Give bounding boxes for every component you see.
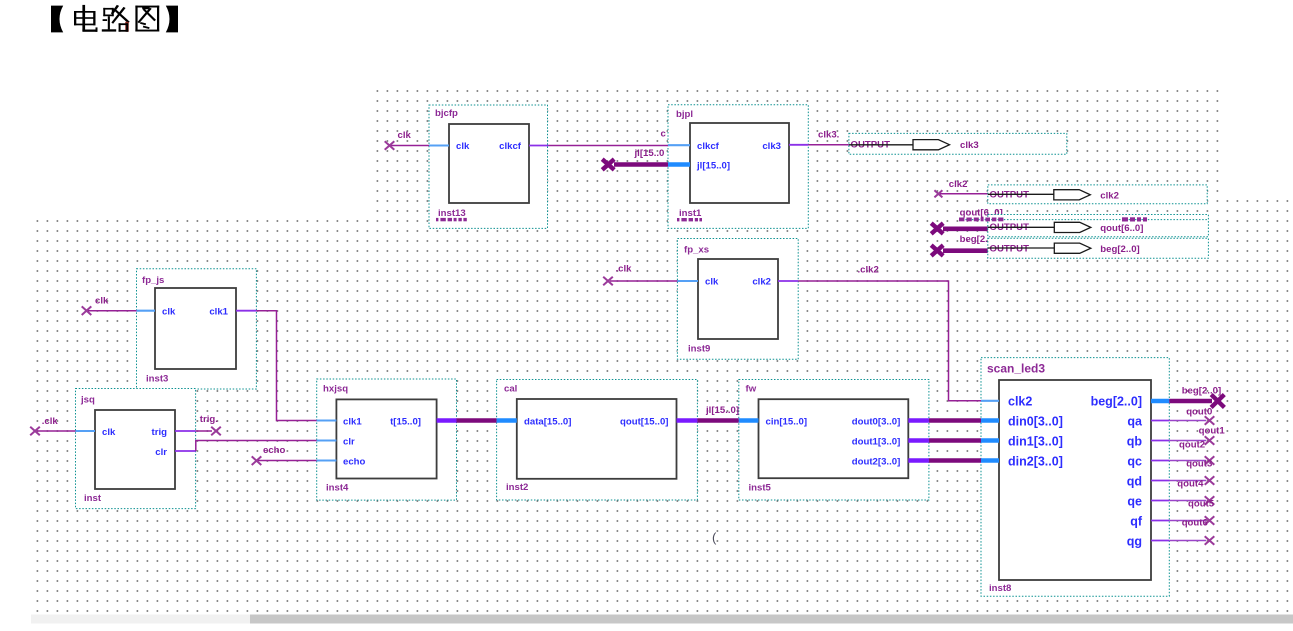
svg-text:jl[15..0: jl[15..0 bbox=[634, 148, 665, 159]
block scan_led3 (inst8) bbox=[981, 358, 1169, 597]
svg-text:inst9: inst9 bbox=[688, 344, 710, 355]
svg-text:clk: clk bbox=[95, 296, 109, 307]
wire clk input to fp_xs bbox=[603, 264, 698, 286]
svg-text:inst3: inst3 bbox=[146, 374, 168, 385]
svg-text:clkcf: clkcf bbox=[697, 141, 720, 152]
svg-text:inst13: inst13 bbox=[438, 208, 466, 219]
svg-text:.clk: .clk bbox=[42, 416, 59, 427]
svg-text:beg[2..0]: beg[2..0] bbox=[1091, 395, 1142, 409]
block fp_xs (inst9) bbox=[677, 239, 798, 360]
svg-text:clk3.: clk3. bbox=[818, 130, 839, 141]
svg-text:OUTPUT: OUTPUT bbox=[990, 190, 1030, 201]
svg-text:fw: fw bbox=[746, 384, 757, 395]
svg-text:clk: clk bbox=[102, 427, 116, 438]
pin OUTPUT clk2 bbox=[988, 185, 1207, 204]
wire fp_js.clk1 to hxjsq.clk1 bbox=[236, 311, 336, 421]
wire bjcfp.clkcf to bjpl.clkcf bbox=[529, 144, 690, 146]
pin OUTPUT clk3 bbox=[849, 133, 1067, 154]
wire bjpl.jl bus with dangling X bbox=[602, 148, 690, 170]
svg-text:qe: qe bbox=[1127, 495, 1142, 509]
block cal (inst2) bbox=[497, 380, 698, 501]
wire clk2 to OUTPUT clk2 bbox=[934, 179, 987, 197]
svg-text:qout2: qout2 bbox=[1179, 440, 1205, 451]
wire clk input to jsq bbox=[30, 416, 95, 435]
svg-text:OUTPUT: OUTPUT bbox=[990, 243, 1030, 254]
svg-text:dout1[3..0]: dout1[3..0] bbox=[852, 436, 901, 447]
svg-text:qout5: qout5 bbox=[1188, 499, 1215, 510]
svg-text:echo: echo bbox=[263, 445, 286, 456]
seam artifact clipped qout box bbox=[959, 217, 1208, 221]
wire jsq.trig dangling with X bbox=[175, 414, 221, 435]
wire clk input to fp_js bbox=[82, 296, 155, 316]
svg-text:cin[15..0]: cin[15..0] bbox=[766, 416, 808, 427]
svg-text:clk: clk bbox=[398, 130, 412, 141]
grid main region bbox=[33, 215, 1290, 613]
svg-text:qout1: qout1 bbox=[1199, 426, 1226, 437]
svg-text:clk: clk bbox=[705, 277, 719, 288]
block fp_js (inst3) bbox=[137, 269, 257, 389]
wire scan_led3.qc dangling bbox=[1151, 440, 1214, 465]
svg-text:inst1: inst1 bbox=[679, 208, 702, 219]
svg-text:.clk2: .clk2 bbox=[858, 265, 879, 276]
svg-text:din1[3..0]: din1[3..0] bbox=[1008, 435, 1063, 449]
svg-text:din2[3..0]: din2[3..0] bbox=[1008, 455, 1063, 469]
svg-text:dout0[3..0]: dout0[3..0] bbox=[852, 416, 901, 427]
svg-text:qa: qa bbox=[1127, 415, 1143, 429]
svg-text:scan_led3: scan_led3 bbox=[987, 362, 1045, 376]
wire fw.dout1 bus to scan_led3.din1 bbox=[908, 438, 999, 442]
block bjpl (inst1) bbox=[668, 105, 808, 229]
wire bjpl.clk3 to OUTPUT clk3 bbox=[789, 130, 849, 145]
wire fp_xs.clk2 to scan_led3.clk2 bbox=[778, 265, 999, 401]
svg-text:beg[2.: beg[2. bbox=[960, 234, 988, 245]
svg-text:qout0: qout0 bbox=[1186, 407, 1212, 418]
svg-text:qout3: qout3 bbox=[1186, 459, 1212, 470]
wire scan_led3.qb dangling bbox=[1151, 426, 1225, 445]
svg-text:qout[6..0]: qout[6..0] bbox=[1100, 223, 1143, 234]
svg-text:clk3: clk3 bbox=[762, 141, 781, 152]
svg-text:clk3: clk3 bbox=[960, 140, 979, 151]
wire fw.dout2 bus to scan_led3.din2 bbox=[908, 458, 999, 462]
scrollbar track bbox=[31, 615, 1293, 624]
seam artifact under inst1 bbox=[677, 218, 702, 221]
block bjcfp (inst13) bbox=[429, 105, 548, 228]
wire scan_led3.qg dangling bbox=[1151, 518, 1214, 545]
svg-text:qout[15..0]: qout[15..0] bbox=[620, 416, 669, 427]
grid right strip bbox=[1219, 192, 1290, 215]
svg-text:beg[2..0]: beg[2..0] bbox=[1100, 244, 1139, 255]
svg-text:clk2: clk2 bbox=[1008, 395, 1032, 409]
svg-text:jl[15..0]: jl[15..0] bbox=[705, 405, 739, 416]
svg-text:inst5: inst5 bbox=[749, 483, 772, 494]
svg-text:cal: cal bbox=[504, 384, 517, 395]
seam artifact under inst13 bbox=[436, 218, 467, 221]
svg-text:inst: inst bbox=[84, 493, 102, 504]
grid top region bbox=[372, 88, 1219, 215]
svg-text:qc: qc bbox=[1127, 455, 1142, 469]
svg-text:bjpl: bjpl bbox=[676, 109, 693, 120]
svg-text:dout2[3..0]: dout2[3..0] bbox=[852, 456, 901, 467]
block fw (inst5) bbox=[739, 380, 929, 501]
svg-text:qb: qb bbox=[1127, 435, 1143, 449]
svg-text:clr: clr bbox=[343, 436, 355, 447]
svg-text:clk1: clk1 bbox=[343, 416, 362, 427]
wire jsq.clr to hxjsq.clr bbox=[175, 441, 336, 452]
svg-text:.clk: .clk bbox=[616, 264, 633, 275]
svg-text:clr: clr bbox=[155, 447, 167, 458]
svg-text:clk2: clk2 bbox=[1100, 190, 1119, 201]
svg-text:clk: clk bbox=[162, 307, 176, 318]
block hxjsq (inst4) bbox=[317, 379, 457, 500]
svg-text:t[15..0]: t[15..0] bbox=[390, 416, 421, 427]
wire scan_led3.qf dangling bbox=[1151, 499, 1215, 525]
svg-text:clk2: clk2 bbox=[752, 277, 771, 288]
svg-text:bjcfp: bjcfp bbox=[435, 108, 458, 119]
wire qout bus to OUTPUT qout with dangling X bbox=[931, 208, 1003, 234]
block jsq (inst) bbox=[76, 389, 196, 509]
svg-text:beg[2..0]: beg[2..0] bbox=[1182, 386, 1221, 397]
svg-text:inst2: inst2 bbox=[506, 482, 528, 493]
node clk (bjcfp input pin stub end) bbox=[385, 130, 412, 150]
svg-text:hxjsq: hxjsq bbox=[323, 384, 348, 395]
wire scan_led3.qd dangling bbox=[1151, 459, 1214, 485]
svg-text:din0[3..0]: din0[3..0] bbox=[1008, 415, 1063, 429]
svg-text:trig: trig bbox=[152, 427, 168, 438]
svg-text:echo: echo bbox=[343, 456, 366, 467]
wire scan_led3.qa dangling bbox=[1151, 407, 1214, 425]
wire fw.dout0 bus to scan_led3.din0 bbox=[908, 418, 999, 422]
svg-text:fp_xs: fp_xs bbox=[684, 245, 709, 256]
svg-text:inst4: inst4 bbox=[326, 483, 349, 494]
svg-text:fp_js: fp_js bbox=[142, 275, 164, 286]
title 【电路图】 bbox=[51, 5, 178, 33]
svg-text:trig.: trig. bbox=[200, 414, 218, 425]
svg-text:c: c bbox=[661, 129, 667, 140]
svg-text:inst8: inst8 bbox=[989, 583, 1012, 594]
svg-text:qf: qf bbox=[1130, 515, 1143, 529]
svg-text:clk2: clk2 bbox=[949, 179, 968, 190]
svg-text:clk1: clk1 bbox=[209, 307, 228, 318]
wire beg bus to OUTPUT beg with dangling X bbox=[931, 234, 988, 256]
wire hxjsq.t bus to cal.data bbox=[437, 418, 517, 422]
svg-text:qout4: qout4 bbox=[1177, 479, 1204, 490]
scrollbar thumb bbox=[250, 615, 1293, 624]
wire scan_led3.qe dangling bbox=[1151, 479, 1214, 505]
wire echo input to hxjsq.echo bbox=[252, 445, 337, 465]
svg-text:clkcf: clkcf bbox=[499, 141, 522, 152]
svg-text:(: ( bbox=[712, 530, 717, 545]
pin OUTPUT beg[2..0] bbox=[988, 238, 1209, 258]
pin OUTPUT qout[6..0] bbox=[988, 215, 1209, 237]
svg-text:qout6: qout6 bbox=[1182, 518, 1208, 529]
svg-text:qg: qg bbox=[1127, 535, 1142, 549]
svg-text:jsq: jsq bbox=[80, 395, 95, 406]
svg-text:data[15..0]: data[15..0] bbox=[524, 416, 571, 427]
svg-text:qd: qd bbox=[1127, 475, 1142, 489]
svg-text:clk: clk bbox=[456, 141, 470, 152]
wire scan_led3.beg bus dangling with X bbox=[1151, 386, 1224, 408]
wire clk input to bjcfp bbox=[390, 145, 450, 147]
wire cal.qout bus to fw.cin bbox=[677, 405, 759, 421]
svg-text:jl[15..0]: jl[15..0] bbox=[696, 161, 730, 172]
